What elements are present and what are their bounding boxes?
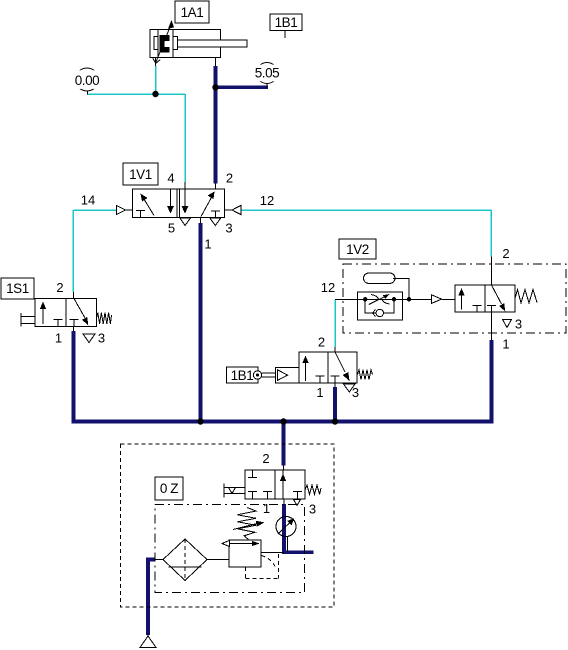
svg-text:2: 2 [318,335,325,350]
svg-text:3: 3 [309,502,316,517]
svg-text:1S1: 1S1 [6,281,29,296]
svg-text:14: 14 [81,193,95,208]
svg-text:0.00: 0.00 [75,73,99,88]
svg-text:1A1: 1A1 [181,5,204,20]
svg-text:1: 1 [502,337,509,352]
svg-text:12: 12 [260,193,274,208]
svg-text:12: 12 [321,280,335,295]
svg-text:0 Z: 0 Z [160,481,178,496]
svg-text:1B1: 1B1 [231,368,254,383]
svg-text:2: 2 [56,280,63,295]
svg-text:4: 4 [167,171,174,186]
svg-text:1: 1 [55,331,62,346]
svg-text:1: 1 [316,385,323,400]
svg-text:2: 2 [262,451,269,466]
svg-text:1: 1 [263,501,270,516]
svg-text:3: 3 [225,221,232,236]
svg-text:1V1: 1V1 [129,167,152,182]
svg-text:1V2: 1V2 [346,242,369,257]
svg-text:2: 2 [502,246,509,261]
svg-text:5.05: 5.05 [255,65,279,80]
svg-text:2: 2 [226,171,233,186]
svg-text:3: 3 [515,317,522,332]
svg-text:3: 3 [98,331,105,346]
svg-text:1: 1 [204,237,211,252]
svg-text:1B1: 1B1 [275,15,298,30]
svg-text:5: 5 [168,221,175,236]
